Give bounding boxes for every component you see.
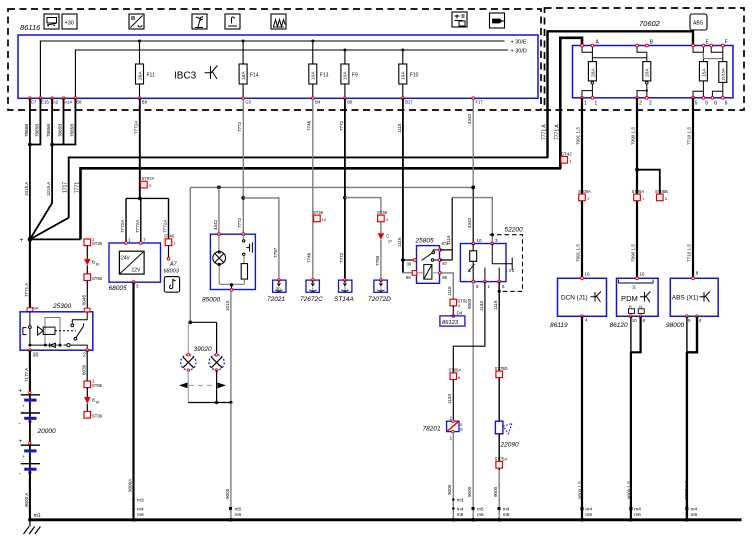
marks m4 m6 pdm xyxy=(634,507,641,518)
IBC3 terminal labels xyxy=(31,100,484,105)
svg-text:7990 1.5: 7990 1.5 xyxy=(631,244,636,262)
wire B9 7772 xyxy=(344,98,346,280)
junction b17 relay xyxy=(401,258,405,262)
lamp 39020 right xyxy=(209,353,224,371)
svg-text:5: 5 xyxy=(460,423,462,427)
svg-text:7771 A: 7771 A xyxy=(24,282,29,297)
svg-text:22090: 22090 xyxy=(500,442,519,449)
svg-text:37: 37 xyxy=(388,240,392,244)
lamps 39020 top bar xyxy=(188,321,216,323)
icon lighter xyxy=(225,14,240,29)
svg-text:F17: F17 xyxy=(476,100,484,105)
junction merge2 xyxy=(50,143,54,147)
svg-text:ST79D: ST79D xyxy=(495,366,508,371)
IBC3 box xyxy=(18,35,538,98)
marks m3 m4 m6 78201 xyxy=(457,498,464,518)
svg-text:1: 1 xyxy=(595,101,598,107)
connector ST07A xyxy=(141,176,155,188)
svg-text:IBC3: IBC3 xyxy=(174,71,197,82)
relay 25805 box xyxy=(417,246,440,284)
ground symbol xyxy=(24,520,41,534)
wire 4442 to 85000 xyxy=(218,187,220,234)
svg-text:9000A: 9000A xyxy=(127,478,132,492)
svg-text:15A: 15A xyxy=(701,68,707,77)
svg-text:m4: m4 xyxy=(137,507,144,513)
svg-text:B8: B8 xyxy=(76,100,82,105)
connector box ST14A xyxy=(339,279,352,293)
fuse F13 xyxy=(309,40,329,99)
svg-text:7710 1.5: 7710 1.5 xyxy=(687,244,692,262)
svg-text:DCN (J1): DCN (J1) xyxy=(561,295,588,302)
diode B upper xyxy=(84,259,99,267)
svg-text:10A: 10A xyxy=(343,71,349,80)
wire ABS combined ground xyxy=(686,352,688,520)
svg-text:30: 30 xyxy=(96,401,100,405)
flasher 78201 xyxy=(447,416,464,441)
68005 inner converter xyxy=(119,251,144,274)
svg-text:ABS: ABS xyxy=(693,21,704,27)
svg-text:E16: E16 xyxy=(41,100,49,105)
85000 switch xyxy=(243,234,253,255)
70602 feed wire lower xyxy=(560,38,582,169)
wire 85 to ST02 xyxy=(440,273,453,299)
dashed enclosure 70602 xyxy=(545,8,745,110)
svg-text:72672C: 72672C xyxy=(300,296,323,303)
svg-text:m4: m4 xyxy=(691,507,698,513)
70602 top terminals xyxy=(581,44,725,47)
svg-text:1116: 1116 xyxy=(493,300,498,310)
svg-text:m4: m4 xyxy=(634,507,641,513)
wire 7780 xyxy=(380,240,382,280)
wire horn to ground xyxy=(498,434,500,470)
svg-text:10: 10 xyxy=(477,238,483,243)
fuse 15A xyxy=(693,62,707,98)
svg-text:12V: 12V xyxy=(132,268,142,274)
svg-text:ST46: ST46 xyxy=(164,234,175,239)
svg-text:78201: 78201 xyxy=(423,426,441,433)
wire PDM pin8 jog xyxy=(631,316,641,352)
svg-text:ST07A: ST07A xyxy=(142,176,155,181)
svg-text:+ 30/E: + 30/E xyxy=(511,40,527,46)
svg-text:9000: 9000 xyxy=(467,298,472,309)
wire B8 to ST07A xyxy=(139,98,141,198)
svg-text:86: 86 xyxy=(406,275,411,280)
marks m3 m4 m6 68005 xyxy=(137,498,144,518)
icon +30 xyxy=(62,14,77,29)
junction g3 branch xyxy=(241,196,245,200)
svg-text:2: 2 xyxy=(639,101,642,107)
connector ST79D xyxy=(495,366,508,378)
wire 7771 to node xyxy=(30,238,81,240)
wire PDM combined ground xyxy=(630,352,632,520)
svg-text:16: 16 xyxy=(585,272,591,277)
svg-text:1133: 1133 xyxy=(479,301,484,311)
svg-text:98000: 98000 xyxy=(666,322,684,329)
70602 internal E-to-fuse4 gray xyxy=(703,52,722,58)
svg-text:10: 10 xyxy=(632,318,638,323)
svg-text:6: 6 xyxy=(714,101,717,107)
svg-text:+: + xyxy=(20,237,24,244)
connector box 72021 xyxy=(273,279,286,293)
svg-text:ST46: ST46 xyxy=(313,210,324,215)
svg-text:C7: C7 xyxy=(31,100,37,105)
relay 25300 box xyxy=(20,312,93,350)
wire F17 4442 upper xyxy=(472,98,474,187)
wire 52200 pin9 to ground xyxy=(472,282,474,520)
connector box 72072D xyxy=(374,279,387,293)
lamp left drop xyxy=(187,322,189,354)
70602 internal A xyxy=(582,46,647,62)
svg-text:+30: +30 xyxy=(65,21,74,27)
68005 top terminals xyxy=(125,242,128,245)
wire st36 to diode B xyxy=(86,246,88,259)
wire C7 drop xyxy=(29,98,31,144)
relay 25300 top right terminal xyxy=(84,308,90,312)
svg-text:7772: 7772 xyxy=(339,120,344,131)
svg-text:6: 6 xyxy=(725,101,728,107)
svg-text:J1: J1 xyxy=(639,305,643,309)
wire 7710 to ABS xyxy=(692,98,694,279)
svg-text:7772A: 7772A xyxy=(135,219,140,233)
wire 52200 pin3 feed xyxy=(452,198,492,244)
junction b9 branch xyxy=(343,196,347,200)
svg-text:D4: D4 xyxy=(457,311,463,316)
PDM bottom pins xyxy=(629,309,635,314)
wire G3 7772 xyxy=(242,98,244,234)
junction merge1 xyxy=(28,143,32,147)
svg-text:7865B: 7865B xyxy=(58,124,63,137)
wire gray drop to 39020 xyxy=(189,187,191,322)
svg-text:9000: 9000 xyxy=(225,488,230,499)
fuse 15/15A xyxy=(712,62,726,98)
wire to relay86 xyxy=(403,272,412,274)
DCN bottom pin xyxy=(581,315,584,318)
connector ST06B xyxy=(655,189,668,201)
wire 68005 to ground xyxy=(132,282,134,520)
70602 feed wire upper xyxy=(548,31,694,158)
svg-text:7746: 7746 xyxy=(307,120,312,131)
wire node to relay 25300 xyxy=(29,239,31,311)
svg-text:30: 30 xyxy=(407,262,412,267)
svg-text:25300: 25300 xyxy=(52,303,71,310)
box 52200 xyxy=(460,244,506,282)
connector ST86 lower xyxy=(84,379,103,389)
svg-text:86119: 86119 xyxy=(550,322,568,329)
svg-text:m6: m6 xyxy=(477,512,484,518)
svg-text:7771 A: 7771 A xyxy=(542,124,548,140)
wire B8a drop xyxy=(52,98,75,144)
svg-text:7771 A: 7771 A xyxy=(554,124,560,140)
svg-text:7772A: 7772A xyxy=(134,120,139,134)
svg-text:F10: F10 xyxy=(410,73,419,79)
PDM J1 bracket xyxy=(618,280,653,290)
relay 25300 junction dots xyxy=(28,344,31,347)
connector ST42 xyxy=(561,151,573,163)
wire 1015 mid diagonal xyxy=(30,145,52,240)
connector ST86 upper xyxy=(84,274,103,281)
connector ST48 xyxy=(377,210,389,222)
svg-text:ST86: ST86 xyxy=(92,276,103,281)
IBC3 bottom terminals xyxy=(29,97,475,100)
lamp right bottom wire xyxy=(216,370,218,402)
wire 1717 diagonal to node xyxy=(30,218,69,240)
85000 lamp xyxy=(218,234,220,284)
lamp bottom bar xyxy=(188,402,231,404)
wire st46 stub xyxy=(168,246,170,258)
svg-text:-: - xyxy=(19,472,21,478)
svg-text:ST09A: ST09A xyxy=(578,189,591,194)
connector ST46 ref xyxy=(164,234,177,246)
battery 20000 cell1 xyxy=(19,389,41,428)
power bus lower xyxy=(81,168,562,239)
svg-text:J1: J1 xyxy=(632,285,637,290)
connector ST08A xyxy=(632,189,646,201)
ground box 86123 xyxy=(440,316,465,326)
wire B4 7746 xyxy=(312,98,314,280)
70602 bottom terminals xyxy=(581,96,725,99)
wire A2 drop xyxy=(51,98,53,144)
svg-text:m6: m6 xyxy=(691,512,698,518)
svg-text:86123: 86123 xyxy=(442,320,459,326)
svg-text:20A: 20A xyxy=(645,68,651,77)
70602 box xyxy=(573,46,734,98)
wire diode to ST86 xyxy=(86,266,88,274)
85000 resistor xyxy=(241,256,247,285)
wire 7990 to PDM xyxy=(636,98,638,278)
IBC3 bus 30/E xyxy=(40,41,504,98)
wire 52200 pin5 1116 xyxy=(498,282,500,422)
icon box hook xyxy=(164,277,179,293)
svg-text:m3: m3 xyxy=(137,498,144,504)
relay 25300 internals xyxy=(23,312,87,350)
wire 4442 lower xyxy=(472,187,474,243)
svg-text:G3: G3 xyxy=(245,100,251,105)
junction b8 split xyxy=(138,197,142,201)
connector box 72672C xyxy=(306,279,319,293)
svg-text:9000: 9000 xyxy=(447,484,452,495)
svg-text:5: 5 xyxy=(695,101,698,107)
junction 4442 graybus xyxy=(471,186,475,190)
svg-text:85000: 85000 xyxy=(202,297,220,304)
wire ST06A to 78201 xyxy=(452,380,454,422)
wire E16 drop xyxy=(30,98,41,144)
svg-text:R: R xyxy=(629,305,632,309)
svg-text:F: F xyxy=(725,40,728,46)
icon heater waves xyxy=(271,14,286,29)
svg-text:7991 1.5: 7991 1.5 xyxy=(576,127,581,145)
svg-text:85: 85 xyxy=(442,275,447,280)
connector ST36 lower xyxy=(84,412,103,419)
svg-text:1116: 1116 xyxy=(446,235,451,245)
svg-text:25805: 25805 xyxy=(415,238,434,245)
connector ST09A xyxy=(578,189,591,201)
fuse F14 xyxy=(239,40,259,99)
svg-text:7772: 7772 xyxy=(237,217,242,228)
52200 resistor xyxy=(469,244,477,282)
box 68005 xyxy=(109,243,161,282)
svg-text:7990 1.5: 7990 1.5 xyxy=(631,127,636,145)
wire to relay30 xyxy=(403,259,415,261)
junction pdm st06b xyxy=(635,168,639,172)
svg-text:9000 1.5: 9000 1.5 xyxy=(684,481,689,499)
relay 25805 terminals xyxy=(414,259,417,262)
svg-text:72072D: 72072D xyxy=(368,296,391,303)
wire b8 split bar xyxy=(126,197,169,199)
node plus junction xyxy=(28,237,33,242)
icon converter xyxy=(129,14,144,29)
svg-text:4442: 4442 xyxy=(467,113,472,124)
horn 22090 xyxy=(495,421,512,434)
svg-text:7780: 7780 xyxy=(375,255,380,266)
svg-text:1116: 1116 xyxy=(397,123,402,133)
wire to 68005 pin1 xyxy=(125,198,127,243)
IBC3 bus 30/D xyxy=(75,50,508,98)
svg-text:ST06B: ST06B xyxy=(655,189,668,194)
svg-text:14: 14 xyxy=(322,217,327,222)
wire 8045 to relay xyxy=(86,281,88,312)
lamp 39020 left xyxy=(181,353,196,371)
dashed enclosure 86116 xyxy=(8,9,541,110)
svg-text:30: 30 xyxy=(276,286,281,291)
svg-text:ST08A: ST08A xyxy=(632,189,645,194)
70602 internal E xyxy=(693,46,703,62)
connector ST06A xyxy=(449,368,462,380)
svg-text:70602: 70602 xyxy=(639,19,661,28)
svg-text:7772: 7772 xyxy=(339,252,344,263)
svg-text:m4: m4 xyxy=(503,507,510,513)
svg-text:m6: m6 xyxy=(634,512,641,518)
wire st86 to diode lower xyxy=(86,388,88,397)
power bus upper xyxy=(69,157,548,217)
70602 internal F xyxy=(711,46,723,62)
svg-text:B17: B17 xyxy=(405,100,413,105)
svg-text:m5: m5 xyxy=(477,507,484,513)
svg-text:ST75A: ST75A xyxy=(495,456,508,461)
turn arrow right xyxy=(217,383,226,389)
marks m5 m6 pin9 xyxy=(477,507,484,518)
52200 cap branch xyxy=(485,244,512,282)
svg-text:m3: m3 xyxy=(457,498,464,504)
svg-text:68005: 68005 xyxy=(109,285,127,292)
svg-text:PDM: PDM xyxy=(621,294,638,303)
svg-text:7865B: 7865B xyxy=(24,124,29,137)
svg-text:ST14A: ST14A xyxy=(334,296,354,303)
svg-text:72021: 72021 xyxy=(267,296,285,303)
svg-text:9000 1.5: 9000 1.5 xyxy=(578,481,583,499)
icon truck xyxy=(44,14,59,29)
box PDM xyxy=(617,272,659,317)
svg-text:7797: 7797 xyxy=(273,247,278,258)
svg-text:ST36: ST36 xyxy=(92,414,103,419)
wire 1015 left xyxy=(29,145,31,240)
svg-text:4442: 4442 xyxy=(467,217,472,228)
svg-text:30: 30 xyxy=(96,263,100,267)
svg-text:7771: 7771 xyxy=(74,182,80,193)
svg-text:68003: 68003 xyxy=(164,269,180,275)
wire A14 drop xyxy=(63,98,65,144)
svg-text:A7: A7 xyxy=(169,262,178,268)
svg-text:m1: m1 xyxy=(34,513,41,519)
svg-text:1015 A: 1015 A xyxy=(24,181,29,196)
svg-text:87: 87 xyxy=(442,261,447,266)
svg-text:2: 2 xyxy=(649,101,652,107)
svg-text:1013: 1013 xyxy=(225,300,230,311)
icon ABS xyxy=(690,14,707,30)
box ABS xyxy=(670,271,718,317)
wire ABS pin9 down xyxy=(686,316,688,520)
svg-text:7865B: 7865B xyxy=(35,124,40,137)
lamp left bottom wire xyxy=(187,370,189,402)
svg-text:8035: 8035 xyxy=(81,364,86,375)
svg-text:m6: m6 xyxy=(137,512,144,518)
svg-text:7710 1.5: 7710 1.5 xyxy=(687,127,692,145)
svg-text:30: 30 xyxy=(33,353,39,359)
wire to 68005 pin7 xyxy=(140,198,142,243)
junction gray bus 4442 branch xyxy=(217,186,221,190)
svg-text:B8: B8 xyxy=(142,100,148,105)
70602 bottom terminal labels xyxy=(584,101,728,107)
wire 87a 87 to 1116 riser xyxy=(440,198,452,260)
70602 top terminal labels xyxy=(596,40,728,46)
wire branch to 72072D xyxy=(345,198,381,234)
fuse F11 xyxy=(136,40,155,99)
wire PDM pin10 down xyxy=(630,316,632,520)
connector ST75A xyxy=(495,456,508,468)
lamp right drop xyxy=(216,322,218,354)
turn arrow link xyxy=(189,384,216,386)
wire 52200 pin1 1133 xyxy=(453,282,485,373)
svg-text:+: + xyxy=(19,439,23,445)
box 85000 xyxy=(210,234,255,289)
svg-text:1: 1 xyxy=(584,101,587,107)
svg-text:1717: 1717 xyxy=(63,182,69,193)
svg-text:9000: 9000 xyxy=(493,486,498,497)
svg-text:7991 1.5: 7991 1.5 xyxy=(576,244,581,262)
icon module xyxy=(452,12,467,27)
fuse F9 xyxy=(341,49,358,99)
relay 25300 bottom terminals xyxy=(29,349,32,352)
connector ST02 xyxy=(450,299,468,309)
wire battery to ground xyxy=(29,471,31,520)
svg-text:ST86: ST86 xyxy=(92,383,103,388)
svg-text:ABS (X1): ABS (X1) xyxy=(672,295,699,302)
fuse F10 xyxy=(399,49,419,99)
svg-text:F14: F14 xyxy=(250,73,259,79)
fuse 20A no1 xyxy=(582,62,596,98)
svg-text:m4: m4 xyxy=(585,507,592,513)
svg-text:8045: 8045 xyxy=(81,294,86,305)
85000 top terminals xyxy=(218,233,221,236)
svg-text:F9: F9 xyxy=(352,73,358,79)
svg-text:+ 30/D: + 30/D xyxy=(511,49,527,55)
connector ST46 b4 xyxy=(313,210,327,222)
svg-text:9000: 9000 xyxy=(467,486,472,497)
diode C37 xyxy=(378,233,392,243)
wire B17 1116 xyxy=(402,98,404,272)
svg-text:A14: A14 xyxy=(64,100,72,105)
svg-text:7865B: 7865B xyxy=(70,124,75,137)
svg-text:15/15A: 15/15A xyxy=(721,68,726,81)
svg-text:ST36: ST36 xyxy=(92,241,103,246)
diode B lower xyxy=(84,397,99,405)
svg-text:-: - xyxy=(19,421,21,427)
dashed extension 52200 xyxy=(490,235,523,292)
wire to ST46 ref xyxy=(168,198,170,239)
svg-text:86120: 86120 xyxy=(610,322,628,329)
relay 25300 input terminal xyxy=(27,308,33,312)
box DCN xyxy=(558,272,607,317)
ground bus xyxy=(30,518,742,521)
